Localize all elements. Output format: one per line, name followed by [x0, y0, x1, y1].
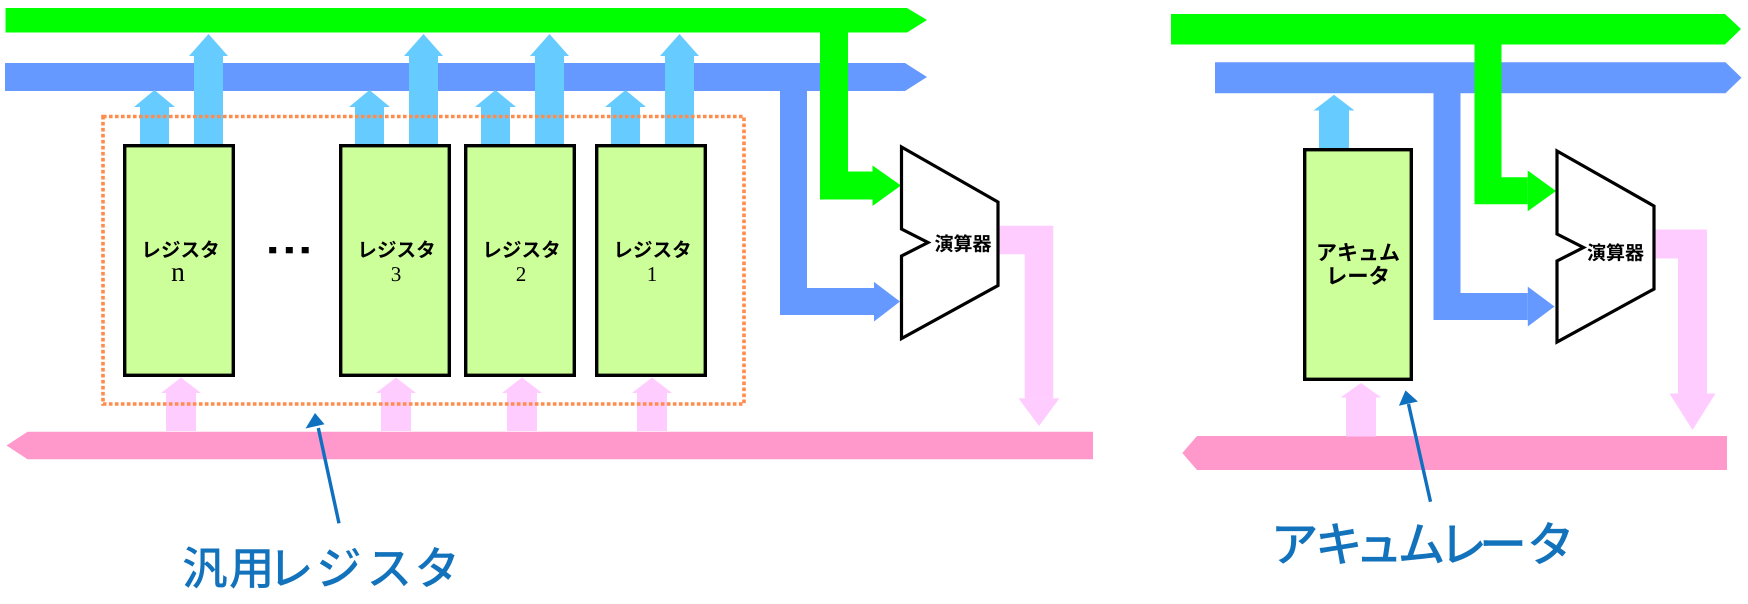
dotted orange frame around general-purpose registers: [103, 117, 744, 405]
blue bus (left, with right arrowhead): [5, 63, 927, 91]
green elbow connector from green bus into ALU (left): [834, 30, 873, 186]
register box (レジスタ 2): [466, 146, 575, 376]
register box (レジスタ n): [125, 146, 234, 376]
accumulator box アキュムレータ: [1305, 150, 1412, 380]
pink bus (right, with left arrowhead): [1182, 436, 1727, 470]
caption アキュムレータ: [1276, 522, 1569, 564]
caption 汎用レジスタ: [184, 546, 455, 588]
ALU trapezoid 演算器 (right): [1557, 151, 1654, 342]
ellipsis dots between register n and register 3: [269, 247, 309, 253]
green bus (right, with right arrowhead): [1171, 14, 1741, 45]
blue annotation arrow pointing at accumulator (right): [1399, 390, 1431, 501]
pink bus (left, result bus with left arrowhead): [7, 432, 1094, 460]
ALU label 演算器 (right): [1588, 243, 1644, 261]
ALU label 演算器 (left): [935, 234, 991, 252]
light blue up-arrow from accumulator to blue bus: [1314, 95, 1355, 150]
blue elbow connector from blue bus into ALU (left): [794, 89, 875, 302]
register box (レジスタ 3): [341, 146, 450, 376]
blue bus (right, with right arrowhead): [1215, 62, 1742, 93]
ALU trapezoid 演算器 (left): [902, 147, 999, 339]
light blue up-arrows from register boxes to buses: [134, 90, 175, 146]
register box (レジスタ 1): [597, 146, 706, 376]
blue annotation arrow pointing at dotted frame (left): [306, 413, 340, 523]
light pink up-arrow from pink bus into accumulator: [1341, 383, 1382, 437]
light pink elbow from ALU output down to pink bus (right): [1654, 244, 1693, 394]
light pink elbow from ALU output down to pink bus (left): [998, 240, 1039, 398]
blue elbow connector from blue bus into ALU (right): [1447, 90, 1528, 307]
green elbow connector from green bus into ALU (right): [1488, 44, 1528, 191]
green bus (left, instruction/data bus with right arrowhead): [6, 8, 928, 33]
light pink up-arrows from pink bus into register boxes: [161, 378, 201, 432]
